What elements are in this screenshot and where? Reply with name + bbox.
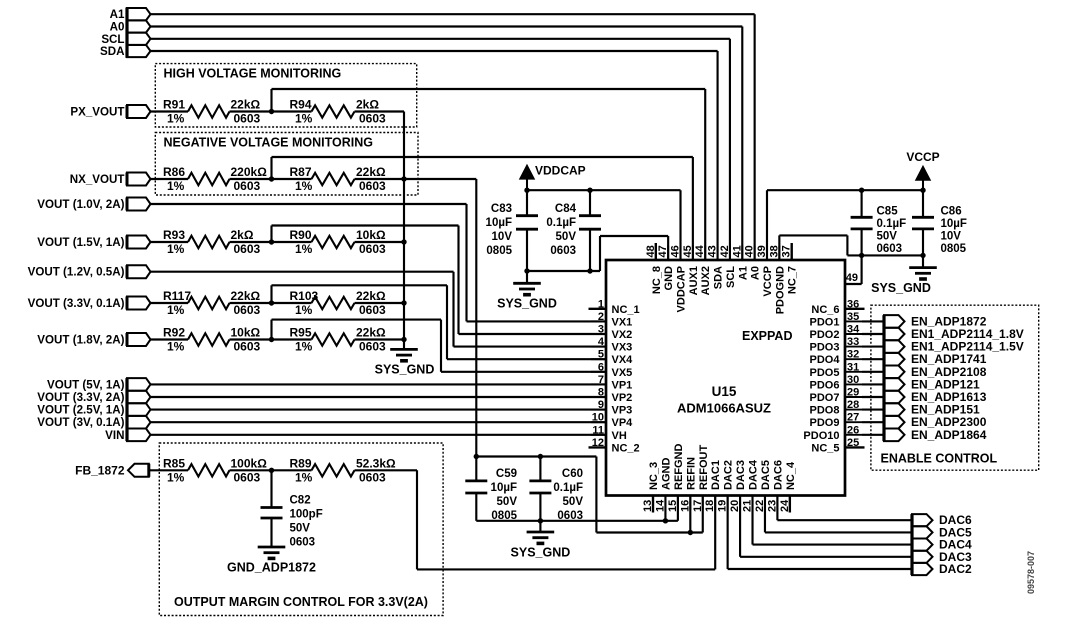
wire VIN to pin 11 (VH) [151,434,607,436]
wire C84 to ground rail [589,229,591,271]
resistor R85 100k 0603 [188,464,230,476]
svg-text:0603: 0603 [550,245,576,257]
wire pin 33 to EN1_ADP2114_1.5V [862,346,884,348]
wire pin 17 (REFOUT) drop [702,496,704,533]
svg-text:13: 13 [642,500,654,512]
node R85/R89/C82 junction [269,468,274,473]
svg-text:PDO10: PDO10 [803,430,839,442]
dotted box ENABLE CONTROL [871,305,1039,470]
connector VOUT (1.5V, 1A) [127,236,151,249]
resistor R103 22kΩ 0603 [312,297,355,309]
power flag VCCP [916,167,930,181]
wire pin 20 to DAC3 [739,496,741,557]
resistor R89 52.3k 0603 [312,464,355,476]
svg-text:1%: 1% [295,112,313,126]
svg-text:AUX1: AUX1 [688,266,700,295]
ground SYS_GND (resistor bus) [390,348,418,351]
svg-text:37: 37 [781,245,793,257]
svg-text:220kΩ: 220kΩ [231,165,268,179]
node lower rail/C86 [920,253,925,258]
svg-text:30: 30 [847,374,859,386]
svg-text:46: 46 [670,245,682,257]
wire VOUT (5V, 1A) to pin 7 (VP1) [151,383,607,385]
svg-text:A1: A1 [110,8,125,21]
svg-text:DAC4: DAC4 [748,459,760,490]
svg-text:ENABLE CONTROL: ENABLE CONTROL [881,452,998,466]
node REFIN junction [688,530,693,535]
wire pin 19 to DAC2 [727,496,729,570]
svg-text:50V: 50V [497,496,518,508]
svg-text:C84: C84 [555,203,577,215]
svg-text:VDDCAP: VDDCAP [535,164,586,178]
connector group bar (DAC tags) [910,514,913,575]
svg-text:C82: C82 [290,495,311,507]
svg-text:SCL: SCL [101,33,124,46]
wire R117 to R103 [230,302,312,304]
svg-text:2kΩ: 2kΩ [356,98,379,112]
svg-text:50V: 50V [877,231,898,243]
svg-text:DAC5: DAC5 [760,460,772,490]
svg-text:C59: C59 [496,468,517,480]
svg-text:VX5: VX5 [612,367,633,379]
resistor R86 220k 0603 [188,173,230,185]
svg-text:4: 4 [598,336,605,348]
svg-text:0805: 0805 [941,243,967,255]
svg-text:VOUT (3.3V, 0.1A): VOUT (3.3V, 0.1A) [28,297,125,310]
node AGND rail / pin 14 [663,518,668,523]
wire SCL to pin 42 [151,38,730,40]
svg-text:NC_1: NC_1 [612,304,640,316]
svg-text:AGND: AGND [660,458,672,490]
connector EN_ADP121 [884,378,905,391]
wire AGND/REFGND rail [476,520,678,522]
svg-text:24: 24 [779,499,791,512]
node R86/R87 junction [269,176,274,181]
wire 3.3V divider to pin 5 (VX4) [272,284,448,286]
svg-text:DAC3: DAC3 [735,460,747,490]
svg-text:SYS_GND: SYS_GND [497,297,557,311]
wire rail to pin 46 (VDDCAP) [679,190,681,260]
resistor R87 22k 0603 [312,173,355,185]
node REFOUT rail / C60 [538,454,543,459]
svg-text:PDO1: PDO1 [810,316,840,328]
svg-text:SYS_GND: SYS_GND [511,546,571,560]
svg-text:0603: 0603 [234,470,261,484]
svg-text:1%: 1% [167,303,185,317]
svg-text:0603: 0603 [290,537,316,549]
svg-text:HIGH VOLTAGE MONITORING: HIGH VOLTAGE MONITORING [164,67,342,81]
svg-text:0603: 0603 [234,242,261,256]
node bus/R90 [401,239,406,244]
connector group bar (A1/A0/SCL/SDA) [125,8,128,58]
wire pin 32 to EN_ADP1741 [862,358,884,360]
connector PX_VOUT [127,105,151,118]
svg-text:PDO4: PDO4 [810,354,841,366]
wire divider junction to pin 6 [270,320,272,340]
svg-text:100kΩ: 100kΩ [231,456,268,470]
svg-text:VOUT (1.2V, 0.5A): VOUT (1.2V, 0.5A) [28,266,125,279]
svg-text:C86: C86 [941,206,962,218]
wire R85 to R89 [230,469,312,471]
svg-text:22kΩ: 22kΩ [356,326,386,340]
wire NX_VOUT to R86 [151,178,189,180]
svg-text:REFOUT: REFOUT [698,445,710,491]
svg-text:0.1µF: 0.1µF [877,218,907,230]
svg-text:PDOGND: PDOGND [774,266,786,314]
wire R94 to ground bus [355,110,405,112]
connector EN1_ADP2114_1.5V [884,340,905,353]
svg-text:VOUT (1.0V, 2A): VOUT (1.0V, 2A) [37,198,124,211]
svg-text:PDO9: PDO9 [810,417,840,429]
connector DAC4 [912,539,933,551]
svg-text:1%: 1% [167,340,185,354]
capacitor C85 0.1uF 50V 0603 [861,190,863,217]
capacitor C82 100pF 50V 0603 [270,470,272,507]
svg-text:VX3: VX3 [612,342,633,354]
wire R93 to R90 [230,241,312,243]
IC U15 right pins 36-25 (stubs, numbers, labels) [803,298,864,454]
dotted box NEGATIVE VOLTAGE MONITORING [155,133,418,196]
svg-text:22kΩ: 22kΩ [356,165,386,179]
svg-text:11: 11 [592,424,604,436]
ground SYS_GND (C59/C60) [539,521,541,532]
wire VCCP rail [767,189,923,191]
svg-text:3: 3 [598,324,604,336]
wire divider junction to pin 5 [270,285,272,303]
svg-text:1: 1 [598,298,604,310]
svg-text:NC_5: NC_5 [811,442,839,454]
wire pin 27 to EN_ADP2300 [862,421,884,423]
svg-text:NX_VOUT: NX_VOUT [70,173,125,186]
svg-text:31: 31 [847,361,859,373]
connector EN1_ADP2114_1.8V [884,328,905,341]
connector DAC3 [912,551,933,563]
svg-text:NC_7: NC_7 [787,266,799,294]
svg-text:41: 41 [731,245,743,257]
wire ground bus vertical [403,112,405,350]
svg-text:17: 17 [692,500,704,512]
svg-text:DAC2: DAC2 [939,562,972,576]
svg-text:VH: VH [612,430,627,442]
resistor R95 22kΩ 0603 [312,333,355,345]
connector DAC6 [912,514,933,526]
wire pin 21 to DAC4 [751,496,753,545]
connector EN_ADP1872 [884,315,905,328]
svg-text:50V: 50V [290,523,311,535]
svg-text:10kΩ: 10kΩ [356,228,386,242]
wire VOUT (1.5V, 1A) to R93 [151,241,189,243]
svg-text:0603: 0603 [359,340,386,354]
svg-text:12: 12 [592,437,604,449]
svg-text:50V: 50V [556,231,577,243]
svg-text:NEGATIVE VOLTAGE MONITORING: NEGATIVE VOLTAGE MONITORING [164,136,374,150]
svg-text:29: 29 [847,387,859,399]
wire divider junction to pin 3 [270,226,272,243]
svg-text:48: 48 [645,245,657,257]
svg-text:GND: GND [663,266,675,291]
svg-text:EXPPAD: EXPPAD [742,329,792,343]
svg-text:C83: C83 [491,203,512,215]
svg-text:SCL: SCL [725,266,737,288]
svg-text:NC_3: NC_3 [648,462,660,490]
wire R87 extension to C59 rail (REFOUT) [404,178,476,180]
wire SDA to pin 43 [151,50,718,52]
wire 1.5V divider to pin 3 (VX2) [272,224,459,226]
svg-text:36: 36 [847,298,859,310]
svg-text:22kΩ: 22kΩ [231,289,261,303]
svg-text:10µF: 10µF [486,217,512,229]
svg-text:0805: 0805 [486,245,512,257]
svg-text:REFGND: REFGND [673,444,685,491]
svg-text:34: 34 [847,324,860,336]
svg-text:22kΩ: 22kΩ [231,98,261,112]
wire pin 35 to EN_ADP1872 [862,320,884,322]
svg-text:1%: 1% [167,470,185,484]
wire pin 14 (AGND) drop [664,496,666,521]
wire C85 to lower rail [861,229,863,256]
wire rail to pin 39 (VCCP) [766,190,768,260]
svg-text:SDA: SDA [713,266,725,289]
svg-text:10: 10 [592,412,604,424]
svg-text:18: 18 [704,500,716,512]
svg-text:VX4: VX4 [612,354,634,366]
svg-text:C85: C85 [877,206,899,218]
svg-text:PX_VOUT: PX_VOUT [70,106,124,119]
svg-text:VP2: VP2 [612,392,633,404]
svg-text:A0: A0 [110,21,125,34]
wire C86 to lower rail [922,229,924,256]
svg-text:FB_1872: FB_1872 [75,463,125,477]
connector FB_1872 [128,464,149,477]
svg-text:2: 2 [598,311,604,323]
svg-text:40: 40 [744,245,756,257]
svg-text:PDO7: PDO7 [810,392,840,404]
svg-text:100pF: 100pF [290,509,323,521]
node VCCP rail/C86 [920,188,925,193]
svg-text:25: 25 [847,437,859,449]
wire VOUT (3.3V, 0.1A) to R117 [151,302,189,304]
svg-text:15: 15 [667,500,679,512]
svg-text:9: 9 [598,399,604,411]
capacitor C84 0.1uF 50V 0603 [589,190,591,216]
svg-text:0603: 0603 [234,112,261,126]
svg-text:R103: R103 [290,289,319,303]
wire VOUT (2.5V, 1A) to pin 9 (VP3) [151,409,607,411]
svg-text:09578-007: 09578-007 [1026,551,1036,594]
svg-text:0603: 0603 [359,242,386,256]
node R93/R90 junction [269,239,274,244]
wire R87 to bus node [355,178,405,180]
svg-text:PDO3: PDO3 [810,342,840,354]
svg-text:PDO8: PDO8 [810,405,840,417]
svg-text:1%: 1% [167,112,185,126]
capacitor C86 10uF 10V 0805 [922,190,924,217]
connector VOUT (1.8V, 2A) [127,333,151,346]
svg-text:OUTPUT MARGIN CONTROL FOR 3.3V: OUTPUT MARGIN CONTROL FOR 3.3V(2A) [174,595,428,609]
svg-text:GND_ADP1872: GND_ADP1872 [227,561,316,575]
svg-text:PDO6: PDO6 [810,379,840,391]
svg-text:0.1µF: 0.1µF [553,482,583,494]
svg-text:SYS_GND: SYS_GND [375,363,435,377]
svg-text:10kΩ: 10kΩ [231,326,261,340]
svg-text:R95: R95 [290,326,312,340]
ground GND_ADP1872 [258,546,286,549]
resistor R91 22k 0603 [188,105,230,117]
svg-text:R92: R92 [163,326,185,340]
connector A1 [127,8,151,20]
wire VDDCAP rail [527,189,681,191]
wire VOUT (3.3V, 2A) to pin 8 (VP2) [151,396,607,398]
svg-text:10µF: 10µF [941,218,967,230]
svg-text:R91: R91 [163,98,185,112]
wire A0 to pin 40 [151,25,743,27]
connector EN_ADP1864 [884,429,905,442]
svg-text:R85: R85 [163,456,185,470]
svg-text:VOUT (5V, 1A): VOUT (5V, 1A) [47,378,125,391]
svg-text:NC_4: NC_4 [785,461,797,490]
svg-text:VOUT (2.5V, 1A): VOUT (2.5V, 1A) [37,404,124,417]
svg-text:16: 16 [679,500,691,512]
svg-text:47: 47 [657,245,669,257]
svg-text:DAC1: DAC1 [710,460,722,490]
wire VOUT 1.2V to pin 4 (VX3) [151,271,454,273]
node gnd rail/C83 [524,268,529,273]
wire C83 to ground rail [526,229,528,271]
svg-text:AUX2: AUX2 [700,266,712,295]
dotted box HIGH VOLTAGE MONITORING [155,64,416,127]
svg-text:1%: 1% [295,242,313,256]
svg-text:0603: 0603 [877,243,903,255]
power flag VDDCAP [520,165,534,179]
node AGND rail / C60 ground [538,518,543,523]
connector VOUT (3.3V, 0.1A) [127,297,151,310]
svg-text:R86: R86 [163,165,185,179]
svg-text:52.3kΩ: 52.3kΩ [356,456,396,470]
svg-text:R90: R90 [290,228,312,242]
wire NEG junction to pin 45 (AUX1) [270,157,272,179]
connector SCL [127,33,151,45]
connector VOUT (1.2V, 0.5A) [127,265,151,278]
svg-text:NC_8: NC_8 [651,266,663,294]
svg-text:38: 38 [768,245,780,257]
svg-text:C60: C60 [562,468,583,480]
wire R95 to ground bus [355,338,405,340]
svg-text:32: 32 [847,349,859,361]
resistor R94 2k 0603 [312,105,355,117]
svg-text:SYS_GND: SYS_GND [871,281,931,295]
wire pin 15 (REFGND) drop [677,496,679,521]
node REFOUT rail / R87 ext [474,454,479,459]
node R92/R95 junction [269,337,274,342]
IC U15 top pins 48-37 (stubs, numbers, labels) [645,243,799,314]
capacitor C83 10uF 10V 0805 [526,190,528,216]
svg-text:10V: 10V [492,231,513,243]
node VDDCAP/C83 [524,188,529,193]
connector DAC2 [912,563,933,575]
wire PX_VOUT to R91 [151,110,189,112]
resistor R117 22kΩ 0603 [188,297,230,309]
svg-text:42: 42 [719,245,731,257]
svg-text:7: 7 [598,374,604,386]
resistor R93 2kΩ 0603 [188,236,230,248]
wire FB_1872 to R85 [149,469,188,471]
svg-text:VP1: VP1 [612,379,633,391]
node R91/R94 junction [269,109,274,114]
svg-text:VCCP: VCCP [762,266,774,297]
ground SYS_GND (C83/C84) [526,271,528,283]
wire R103 to ground bus [355,302,405,304]
wire pin 22 to DAC5 [764,496,766,533]
connector EN_ADP151 [884,403,905,416]
svg-text:1%: 1% [295,340,313,354]
svg-text:R87: R87 [290,165,312,179]
IC U15 ADM1066ASUZ body [606,260,845,496]
connector VOUT (3V, 0.1A) [127,416,151,429]
svg-text:0603: 0603 [359,112,386,126]
svg-text:0603: 0603 [234,179,261,193]
connector VOUT (1.0V, 2A) [127,198,151,211]
capacitor C60 0.1uF 50V 0603 [539,457,541,481]
svg-text:1%: 1% [295,470,313,484]
svg-text:A0: A0 [750,266,762,280]
svg-text:1%: 1% [295,179,313,193]
wire C82 to GND_ADP1872 [270,518,272,547]
wire VOUT (3V, 0.1A) to pin 10 (VP4) [151,421,607,423]
node lower rail/C85/pin49 [859,253,864,258]
wire pin 31 to EN_ADP2108 [862,371,884,373]
wire pin 34 to EN1_ADP2114_1.8V [862,333,884,335]
wire VOUT (1.8V, 2A) to R92 [151,338,189,340]
svg-text:39: 39 [756,245,768,257]
wire pin 38 (PDOGND) to lower rail [778,235,780,260]
connector EN_ADP1741 [884,353,905,366]
svg-text:VX2: VX2 [612,329,633,341]
svg-text:VOUT (1.5V, 1A): VOUT (1.5V, 1A) [37,236,124,249]
wire C60 to AGND rail [539,493,541,521]
wire HV junction to pin 44 (AUX2) [270,89,272,112]
capacitor C59 10uF 50V 0805 [475,457,477,481]
svg-text:DAC6: DAC6 [772,460,784,490]
connector VOUT (5V, 1A) [127,378,151,391]
svg-text:VOUT (3.3V, 2A): VOUT (3.3V, 2A) [37,391,124,404]
svg-text:33: 33 [847,336,859,348]
IC U15 bottom pins 13-24 (stubs, numbers, labels) [642,444,797,513]
svg-text:28: 28 [847,399,859,411]
svg-text:1%: 1% [295,303,313,317]
connector A0 [127,20,151,32]
connector VOUT (2.5V, 1A) [127,403,151,416]
wire VOUT 1.0V to pin 2 (VX1) [151,203,467,205]
IC U15 left pins 1-12 (stubs, numbers, labels) [589,298,640,454]
svg-text:10V: 10V [941,231,962,243]
connector EN_ADP1613 [884,391,905,404]
wire pin 30 to EN_ADP121 [862,383,884,385]
svg-text:0603: 0603 [359,303,386,317]
svg-text:6: 6 [598,361,604,373]
wire REFOUT rail to REFIN/REFOUT pins [595,457,597,533]
svg-text:49: 49 [846,272,858,284]
wire pin 23 to DAC6 [776,496,778,521]
node bus/R95 [401,337,406,342]
node VDDCAP/C84 [587,188,592,193]
wire A1 to pin 41 [151,13,755,15]
svg-text:10µF: 10µF [491,482,517,494]
svg-text:VCCP: VCCP [906,150,939,164]
wire C59 to AGND rail [475,493,477,521]
svg-text:2kΩ: 2kΩ [231,228,254,242]
svg-text:27: 27 [847,412,859,424]
connector SDA [127,45,151,57]
